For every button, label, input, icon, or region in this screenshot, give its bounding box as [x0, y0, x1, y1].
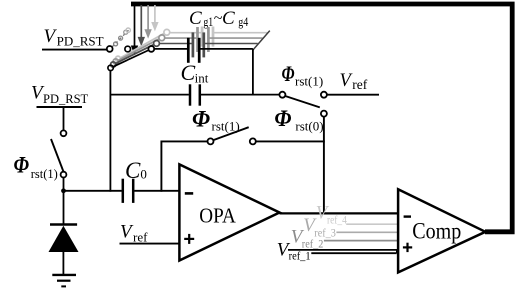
- reset switch left ring: [208, 138, 214, 144]
- wire V_ref_2: [324, 240, 404, 242]
- SPDT throw ring to V_ref: [321, 92, 327, 98]
- wire: cap bank right side down to Cint row: [252, 49, 254, 96]
- control line arrow 2 (dark gray): [138, 5, 145, 46]
- label V_ref_3 (mid gray): [303, 215, 336, 239]
- Comp plus: [403, 243, 412, 252]
- PD reset switch bottom ring: [61, 172, 67, 178]
- wire: V_ref (top): [327, 94, 379, 96]
- svg-text:C: C: [189, 8, 202, 29]
- svg-text:PD_RST: PD_RST: [43, 92, 89, 106]
- Comp minus: [404, 215, 411, 217]
- wire: OPA output to comparator: [280, 212, 399, 214]
- SPDT arm: [285, 96, 320, 107]
- switch bank arm 3 (mid gray): [113, 35, 165, 64]
- reset switch arm: [213, 127, 248, 140]
- svg-text:g4: g4: [238, 14, 248, 29]
- svg-text:C: C: [222, 8, 235, 29]
- capacitor Cint: [110, 84, 279, 105]
- svg-text:rst(0): rst(0): [295, 119, 323, 134]
- OPA plus: [184, 234, 194, 244]
- OPA minus: [185, 192, 193, 195]
- PD reset switch arm: [51, 139, 64, 172]
- svg-text:Φ: Φ: [14, 153, 30, 178]
- svg-text:Φ: Φ: [282, 61, 295, 86]
- wire: reset switch to output vertical: [256, 140, 325, 142]
- comparator Comp: [398, 189, 485, 272]
- svg-text:ref: ref: [352, 77, 367, 92]
- wire V_ref_3: [336, 231, 405, 233]
- SPDT reset switch: pole ring: [279, 92, 285, 98]
- ground: [52, 275, 76, 287]
- control line arrow 1 (black): [131, 5, 138, 55]
- wire: V_ref to OPA +: [120, 243, 180, 245]
- wire: V_PD_RST stub: [37, 106, 83, 108]
- node A junction dot: [61, 188, 66, 193]
- feedback bus from comparator output (thick loop): [131, 4, 512, 232]
- svg-text:rst(1): rst(1): [31, 167, 58, 181]
- svg-text:rst(1): rst(1): [295, 74, 323, 89]
- control line arrow 3 (mid gray): [144, 5, 151, 39]
- svg-text:0: 0: [140, 167, 147, 182]
- reset switch Phi_rst(1): wire from OPA input: [161, 140, 207, 142]
- photodiode PD: [49, 191, 79, 274]
- svg-text:ref: ref: [133, 230, 148, 245]
- capacitor C0: [123, 179, 180, 203]
- op-amp OPA: [179, 164, 279, 260]
- svg-text:Φ: Φ: [274, 106, 291, 131]
- wire: switch to node A: [63, 178, 65, 191]
- svg-text:C: C: [181, 60, 196, 85]
- svg-text:OPA: OPA: [199, 204, 236, 228]
- switch bank arm 2 (dark gray): [111, 41, 160, 68]
- control line arrow 4 (light gray): [151, 5, 158, 31]
- dash-dot ellipsis chain of switch terminals: [112, 28, 130, 47]
- wire V_ref_4: [346, 223, 407, 225]
- PD reset switch top ring: [61, 130, 67, 136]
- wire: node A vertical (switch bank to input node): [109, 71, 111, 192]
- svg-text:Φ: Φ: [192, 106, 210, 131]
- wire: V_PD_RST feed: [42, 49, 107, 51]
- switch bank arm 1 (black): [108, 46, 154, 71]
- label V_ref_2 (dark gray): [291, 226, 324, 250]
- gather diagonal for cap bank right leads: [253, 31, 270, 50]
- terminal ring on V_PD_RST branch: [125, 46, 131, 52]
- label V_ref_4 (light gray): [316, 202, 347, 226]
- capacitor Cg1 (black): [154, 38, 253, 63]
- wire: node A horizontal: [64, 190, 122, 192]
- capacitor Cg3 (mid gray): [165, 27, 263, 52]
- terminal ring at V_PD_RST wire end: [107, 46, 113, 52]
- wire V_ref_1 double line: [288, 249, 398, 251]
- wire: output vertical: [323, 117, 325, 214]
- wire: down to OPA inverting input: [160, 141, 162, 192]
- capacitor Cg4 (light gray): [170, 27, 268, 47]
- SPDT throw ring to output: [321, 111, 327, 117]
- switch bank arm 4 (light gray): [115, 29, 169, 61]
- svg-text:PD_RST: PD_RST: [57, 34, 104, 49]
- svg-text:int: int: [195, 70, 209, 85]
- reset switch right ring: [250, 138, 256, 144]
- capacitor Cg2 (dark gray): [159, 32, 257, 57]
- svg-text:Comp: Comp: [412, 218, 461, 243]
